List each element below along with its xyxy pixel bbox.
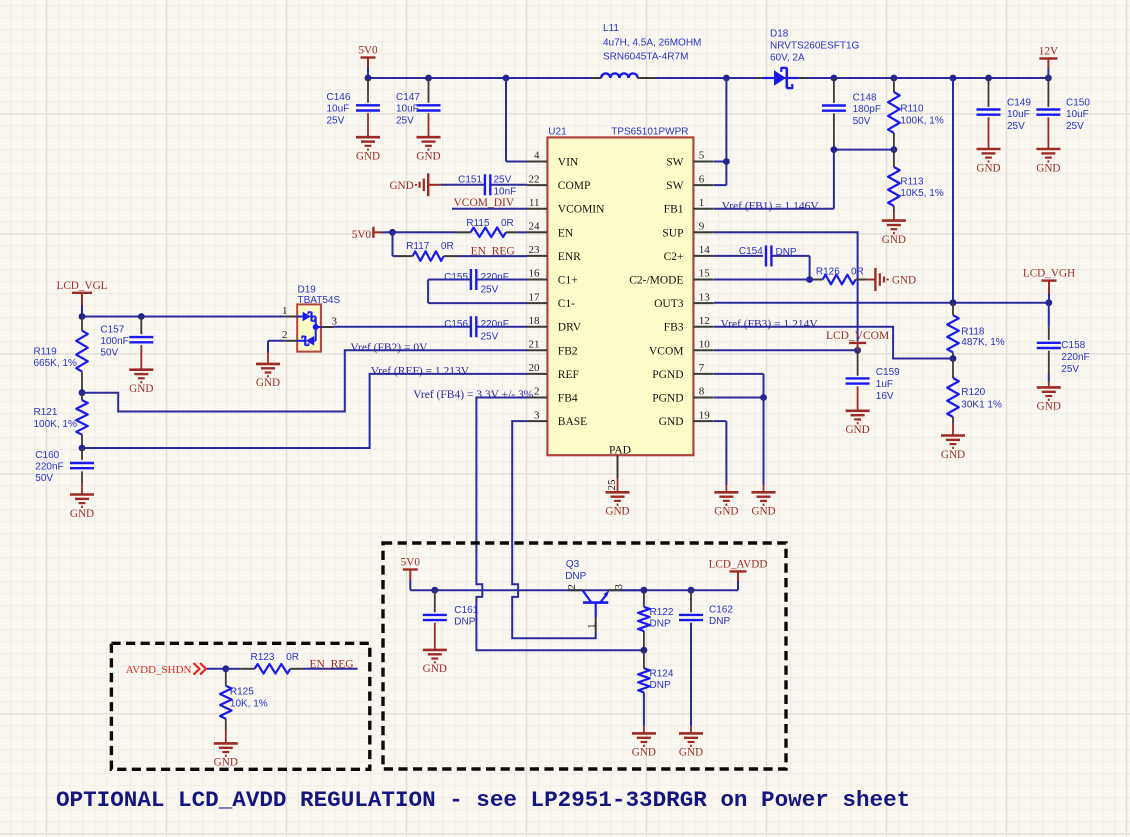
svg-text:SW: SW: [666, 157, 683, 169]
wire 12V rail to OUT3: [952, 78, 954, 303]
capacitor C158: [1037, 303, 1090, 388]
svg-text:GND: GND: [941, 449, 965, 461]
pin 11 VCOMIN (left): [527, 197, 605, 216]
label U21 designator: [548, 127, 567, 138]
capacitor C155: [428, 269, 527, 303]
svg-text:25V: 25V: [494, 175, 512, 186]
svg-text:C151: C151: [458, 175, 482, 186]
svg-text:GND: GND: [632, 747, 656, 759]
wire FB4 net: [476, 398, 644, 651]
label Vref FB2: [350, 342, 428, 354]
capacitor C157: [100, 317, 153, 370]
svg-text:17: 17: [529, 291, 541, 303]
svg-text:3: 3: [613, 584, 625, 590]
svg-text:9: 9: [699, 221, 705, 233]
svg-text:FB3: FB3: [664, 322, 684, 334]
svg-text:50V: 50V: [35, 473, 53, 484]
svg-text:R118: R118: [961, 327, 985, 338]
power port LCD_VGH: [1023, 268, 1075, 303]
svg-text:12: 12: [699, 315, 710, 327]
wire C2-/MODE: [714, 279, 810, 281]
ground pin19: [714, 492, 738, 517]
ground R125: [214, 743, 238, 768]
capacitor C162: [679, 590, 733, 733]
wire FB1 net: [714, 150, 834, 209]
diode D18: [756, 29, 860, 89]
resistor R126: [810, 266, 875, 284]
resistor R122: [638, 590, 674, 650]
svg-text:0R: 0R: [286, 652, 299, 663]
svg-text:C154: C154: [739, 246, 763, 257]
pin 7 PGND (right): [652, 362, 714, 381]
svg-text:AVDD_SHDN: AVDD_SHDN: [126, 664, 192, 676]
capacitor C154: [714, 245, 810, 279]
svg-text:C146: C146: [327, 92, 351, 103]
svg-text:Vref (FB3) = 1.214V: Vref (FB3) = 1.214V: [721, 318, 819, 330]
pin 2 FB4 (left): [527, 386, 578, 405]
svg-text:TBAT54S: TBAT54S: [298, 295, 341, 306]
ground C161: [423, 650, 447, 675]
svg-text:GND: GND: [882, 234, 906, 246]
svg-text:10uF: 10uF: [1007, 109, 1030, 120]
pin 10 VCOM (right): [649, 339, 714, 358]
wire C148-R110 link: [831, 146, 898, 153]
resistor R117: [393, 232, 528, 261]
svg-text:L11: L11: [603, 23, 619, 34]
wire SW pins to rail: [714, 78, 730, 185]
svg-text:DNP: DNP: [709, 616, 730, 627]
power port LCD_AVDD: [709, 558, 768, 590]
svg-text:BASE: BASE: [558, 416, 587, 428]
op-amp U21 TPS65101PWPR body: [547, 137, 693, 455]
svg-text:12V: 12V: [1039, 46, 1058, 58]
svg-text:R122: R122: [650, 607, 674, 618]
pin 14 C2+ (right): [664, 244, 714, 263]
resistor R120: [947, 359, 1002, 436]
svg-text:R117: R117: [406, 241, 430, 252]
svg-text:C160: C160: [35, 450, 59, 461]
svg-text:GND: GND: [1037, 401, 1061, 413]
capacitor C156: [334, 316, 528, 342]
svg-text:220nF: 220nF: [481, 272, 509, 283]
svg-text:GND: GND: [605, 506, 629, 518]
svg-text:100K, 1%: 100K, 1%: [34, 419, 77, 430]
svg-text:C148: C148: [853, 93, 877, 104]
pin 13 OUT3 (right): [654, 291, 714, 310]
svg-text:18: 18: [529, 315, 541, 327]
label Vref FB3: [721, 318, 819, 330]
svg-text:Q3: Q3: [566, 559, 580, 570]
pin 23 ENR (left): [527, 244, 581, 263]
power port 5V0 (EN): [352, 227, 393, 241]
svg-text:DNP: DNP: [776, 247, 797, 258]
svg-text:FB4: FB4: [558, 393, 578, 405]
svg-text:GND: GND: [976, 162, 1000, 174]
svg-text:25V: 25V: [396, 115, 414, 126]
capacitor C149: [977, 78, 1032, 149]
svg-text:4u7H, 4.5A, 26MOHM: 4u7H, 4.5A, 26MOHM: [603, 38, 701, 49]
pin 3 BASE (left): [527, 409, 587, 428]
node 5V0 rail junctions: [365, 75, 1052, 82]
net label VCOM_DIV: [454, 197, 515, 209]
svg-text:GND: GND: [1036, 162, 1060, 174]
svg-text:50V: 50V: [853, 116, 871, 127]
svg-text:0R: 0R: [441, 241, 454, 252]
wire VCOM net: [714, 347, 861, 354]
dashed box AVDD_SHDN divider: [111, 643, 369, 769]
svg-text:0R: 0R: [851, 266, 864, 277]
pin 3 D19: [321, 316, 338, 328]
diode D19 TBAT54S: [297, 284, 340, 351]
svg-text:1uF: 1uF: [876, 379, 893, 390]
svg-text:R125: R125: [230, 687, 254, 698]
svg-text:R126: R126: [816, 266, 840, 277]
pin 4 VIN (left): [527, 150, 579, 169]
svg-text:3: 3: [534, 409, 540, 421]
svg-text:REF: REF: [558, 369, 579, 381]
svg-text:10: 10: [699, 339, 711, 351]
svg-text:C147: C147: [396, 92, 420, 103]
pin 19 GND (right): [659, 409, 714, 428]
svg-text:5V0: 5V0: [401, 557, 421, 569]
node AVDD_SHDN junction: [222, 665, 229, 672]
svg-text:C162: C162: [709, 605, 733, 616]
svg-text:100K, 1%: 100K, 1%: [900, 115, 943, 126]
pin 15 C2-/MODE (right): [629, 268, 714, 287]
node EN junction: [389, 229, 396, 236]
wire SUP net: [714, 232, 858, 341]
svg-text:DNP: DNP: [454, 617, 475, 628]
svg-text:30K1 1%: 30K1 1%: [961, 400, 1002, 411]
ground C158: [1037, 387, 1061, 412]
svg-text:R119: R119: [34, 346, 58, 357]
capacitor C146: [327, 78, 381, 137]
capacitor C159: [846, 350, 901, 411]
svg-text:LCD_AVDD: LCD_AVDD: [709, 558, 768, 570]
wire D19 pin2 to ground: [268, 341, 285, 364]
svg-text:C149: C149: [1007, 98, 1031, 109]
svg-text:487K, 1%: 487K, 1%: [961, 337, 1004, 348]
svg-text:100nF: 100nF: [100, 336, 128, 347]
svg-text:22: 22: [529, 173, 540, 185]
svg-text:R123: R123: [251, 652, 275, 663]
pin 24 EN (left): [527, 221, 574, 240]
svg-text:13: 13: [699, 291, 711, 303]
svg-text:220nF: 220nF: [481, 319, 509, 330]
wire PGND net: [714, 374, 767, 492]
svg-text:4: 4: [534, 150, 540, 162]
pin 6 SW (right): [666, 173, 714, 192]
svg-text:10uF: 10uF: [327, 104, 350, 115]
svg-text:1: 1: [282, 305, 288, 317]
pin 2 D19: [282, 329, 297, 341]
svg-text:GND: GND: [679, 747, 703, 759]
svg-text:665K, 1%: 665K, 1%: [34, 358, 77, 369]
svg-text:GND: GND: [70, 508, 94, 520]
svg-text:R113: R113: [900, 176, 924, 187]
svg-text:220nF: 220nF: [35, 462, 63, 473]
svg-text:15: 15: [699, 268, 711, 280]
pin 1 D19: [282, 305, 297, 317]
svg-text:10uF: 10uF: [396, 104, 419, 115]
resistor R113: [888, 150, 944, 221]
svg-text:OPTIONAL LCD_AVDD REGULATION -: OPTIONAL LCD_AVDD REGULATION - see LP295…: [56, 787, 910, 813]
capacitor C160: [35, 448, 94, 495]
inductor L11: [592, 23, 701, 78]
svg-text:GND: GND: [751, 506, 775, 518]
power port 5V0 (top): [358, 45, 378, 79]
svg-text:C157: C157: [100, 325, 124, 336]
svg-text:25V: 25V: [481, 284, 499, 295]
wire FB2 net: [82, 350, 527, 411]
pin 18 DRV (left): [527, 315, 582, 334]
resistor R118: [947, 303, 1005, 359]
svg-text:2: 2: [534, 386, 540, 398]
svg-text:GND: GND: [256, 377, 280, 389]
ground R113: [882, 221, 906, 246]
svg-text:SW: SW: [666, 180, 683, 192]
pin 9 SUP (right): [662, 221, 713, 240]
wire VCOM_DIV: [452, 208, 527, 210]
svg-text:C2+: C2+: [664, 251, 684, 263]
svg-text:50V: 50V: [100, 348, 118, 359]
pin 8 PGND (right): [652, 386, 714, 405]
svg-text:GND: GND: [356, 151, 380, 163]
svg-text:11: 11: [529, 197, 540, 209]
pin 1 FB1 (right): [664, 197, 714, 216]
wire FB3 net: [714, 327, 953, 359]
svg-text:OUT3: OUT3: [654, 298, 684, 310]
pin 21 FB2 (left): [527, 339, 578, 358]
svg-text:U21: U21: [548, 127, 567, 138]
ground C150: [1036, 149, 1060, 174]
svg-text:GND: GND: [423, 663, 447, 675]
pin 22 COMP (left): [527, 173, 590, 192]
ground C162: [679, 733, 703, 758]
wire 5V0 top rail: [368, 77, 1049, 79]
pin 20 REF (left): [527, 362, 579, 381]
wire rail to VIN pin 4: [506, 78, 527, 162]
pin 12 FB3 (right): [664, 315, 714, 334]
pin 17 C1- (left): [527, 291, 575, 310]
svg-text:14: 14: [699, 244, 711, 256]
svg-text:6: 6: [699, 173, 705, 185]
node R118-R120 junction: [950, 355, 957, 362]
svg-text:5V0: 5V0: [352, 229, 372, 241]
pin 16 C1+ (left): [527, 268, 578, 287]
svg-text:COMP: COMP: [558, 180, 591, 192]
svg-text:180pF: 180pF: [853, 104, 881, 115]
svg-text:EN: EN: [558, 227, 574, 239]
svg-text:C1-: C1-: [558, 298, 575, 310]
svg-text:25V: 25V: [1066, 121, 1084, 132]
ground D19 pin2: [256, 364, 280, 389]
label Vref FB4: [413, 389, 533, 401]
svg-text:0R: 0R: [501, 218, 514, 229]
svg-text:C150: C150: [1066, 98, 1090, 109]
node R122-R124 junction: [641, 647, 648, 654]
port AVDD_SHDN: [126, 663, 226, 676]
svg-text:16V: 16V: [876, 391, 894, 402]
svg-text:SUP: SUP: [662, 227, 683, 239]
svg-text:R115: R115: [466, 218, 490, 229]
svg-text:Vref (FB4) = 3.3V +/- 3%: Vref (FB4) = 3.3V +/- 3%: [413, 389, 533, 401]
svg-text:VIN: VIN: [558, 157, 579, 169]
svg-text:GND: GND: [416, 151, 440, 163]
svg-text:10K5, 1%: 10K5, 1%: [900, 188, 943, 199]
svg-text:24: 24: [529, 221, 541, 233]
node C2- junction: [806, 276, 813, 283]
svg-text:1: 1: [699, 197, 705, 209]
resistor R110: [888, 78, 944, 150]
capacitor C150: [1036, 78, 1090, 149]
net label EN_REG (box): [310, 658, 354, 670]
svg-text:7: 7: [699, 362, 705, 374]
label Vref REF: [371, 366, 470, 378]
node R121-C160 junction: [79, 445, 86, 452]
svg-text:19: 19: [699, 409, 711, 421]
svg-text:8: 8: [699, 386, 705, 398]
power port LCD_VCOM: [826, 330, 889, 350]
svg-text:60V, 2A: 60V, 2A: [770, 53, 805, 64]
svg-text:C155: C155: [444, 272, 468, 283]
svg-text:2: 2: [282, 329, 288, 341]
svg-text:23: 23: [529, 244, 541, 256]
svg-text:PGND: PGND: [652, 393, 683, 405]
caption text: [56, 787, 910, 813]
ground R126 (sideways): [875, 268, 916, 291]
svg-text:GND: GND: [714, 506, 738, 518]
svg-text:TPS65101PWPR: TPS65101PWPR: [611, 127, 688, 138]
wire OUT3 net: [714, 299, 1052, 306]
node R119-R121 junction: [79, 389, 86, 396]
capacitor C148: [822, 78, 881, 150]
svg-text:5V0: 5V0: [358, 45, 378, 57]
svg-text:25V: 25V: [1061, 364, 1079, 375]
svg-text:25V: 25V: [481, 332, 499, 343]
svg-text:C1+: C1+: [558, 275, 578, 287]
svg-text:EN_REG: EN_REG: [310, 658, 354, 670]
diode D19 internals: [297, 312, 321, 346]
svg-text:C159: C159: [876, 367, 900, 378]
svg-text:10nF: 10nF: [494, 187, 517, 198]
svg-text:1: 1: [586, 623, 598, 629]
svg-text:FB2: FB2: [558, 345, 578, 357]
svg-text:D19: D19: [298, 284, 317, 295]
power port 12V: [1039, 46, 1058, 79]
ground C147: [416, 137, 440, 162]
svg-text:VCOM_DIV: VCOM_DIV: [454, 197, 515, 209]
svg-text:LCD_VGL: LCD_VGL: [57, 280, 108, 292]
pin 25 PAD: [606, 444, 631, 492]
svg-text:2: 2: [566, 584, 578, 590]
svg-text:GND: GND: [214, 757, 238, 769]
ground C159: [845, 411, 869, 436]
svg-text:GND: GND: [129, 383, 153, 395]
svg-text:C161: C161: [454, 605, 478, 616]
wire LCD_VGL rail: [79, 313, 285, 320]
power port LCD_VGL: [57, 280, 108, 317]
svg-text:C158: C158: [1061, 340, 1085, 351]
label U21 part number: [611, 127, 688, 138]
svg-text:PGND: PGND: [652, 369, 683, 381]
svg-text:ENR: ENR: [558, 251, 581, 263]
svg-text:FB1: FB1: [664, 204, 684, 216]
ground C149: [976, 149, 1000, 174]
capacitor C147: [396, 78, 441, 137]
svg-text:NRVTS260ESFT1G: NRVTS260ESFT1G: [770, 41, 860, 52]
svg-text:C156: C156: [444, 319, 468, 330]
svg-text:DRV: DRV: [558, 322, 582, 334]
pin 5 SW (right): [666, 150, 714, 169]
svg-text:25V: 25V: [327, 115, 345, 126]
svg-text:16: 16: [529, 268, 541, 280]
svg-text:Vref (REF) = 1.213V: Vref (REF) = 1.213V: [371, 366, 470, 378]
svg-text:EN_REG: EN_REG: [471, 245, 515, 257]
ground C157: [129, 370, 153, 395]
ground R120: [941, 436, 965, 461]
svg-text:10uF: 10uF: [1066, 109, 1089, 120]
svg-text:Vref (FB1) = 1.146V: Vref (FB1) = 1.146V: [722, 200, 820, 212]
wire REF net: [82, 374, 527, 448]
resistor R125: [220, 669, 268, 744]
ground C151 (sideways): [389, 173, 428, 196]
wire GND pin19 net: [714, 421, 726, 492]
svg-text:PAD: PAD: [609, 444, 631, 456]
resistor R123: [226, 652, 358, 674]
svg-text:VCOM: VCOM: [649, 345, 684, 357]
svg-text:GND: GND: [845, 424, 869, 436]
svg-text:DNP: DNP: [650, 619, 671, 630]
svg-text:SRN6045TA-4R7M: SRN6045TA-4R7M: [603, 52, 688, 63]
svg-text:GND: GND: [389, 180, 413, 192]
svg-text:20: 20: [529, 362, 541, 374]
svg-text:220nF: 220nF: [1061, 352, 1089, 363]
svg-text:R121: R121: [34, 407, 58, 418]
svg-text:25: 25: [606, 479, 618, 491]
ground PAD: [605, 492, 629, 517]
dashed box optional LCD_AVDD regulation: [383, 543, 786, 769]
resistor R124: [638, 650, 674, 733]
svg-text:21: 21: [529, 339, 540, 351]
svg-text:R110: R110: [900, 103, 924, 114]
power port 5V0 (bottom): [401, 557, 421, 591]
svg-text:GND: GND: [892, 275, 916, 287]
ground PGND: [751, 492, 775, 517]
svg-text:R124: R124: [650, 668, 674, 679]
capacitor C161: [423, 590, 479, 650]
ground C160: [70, 495, 94, 520]
svg-text:D18: D18: [770, 29, 789, 40]
svg-text:DNP: DNP: [565, 571, 586, 582]
svg-text:5: 5: [699, 150, 705, 162]
capacitor C151: [428, 174, 527, 197]
svg-text:3: 3: [332, 316, 338, 328]
svg-text:GND: GND: [659, 416, 684, 428]
resistor R119: [34, 317, 88, 393]
svg-text:DNP: DNP: [650, 680, 671, 691]
ground R124: [632, 733, 656, 758]
label Vref FB1: [722, 200, 820, 212]
resistor R115: [393, 218, 528, 237]
net label EN_REG: [471, 245, 515, 257]
svg-text:25V: 25V: [1007, 121, 1025, 132]
svg-text:Vref (FB2) = 0V: Vref (FB2) = 0V: [350, 342, 428, 354]
resistor R121: [34, 393, 88, 448]
svg-text:LCD_VCOM: LCD_VCOM: [826, 330, 889, 342]
wire bottom 5V0 rail: [410, 587, 738, 594]
svg-text:VCOMIN: VCOMIN: [558, 204, 605, 216]
